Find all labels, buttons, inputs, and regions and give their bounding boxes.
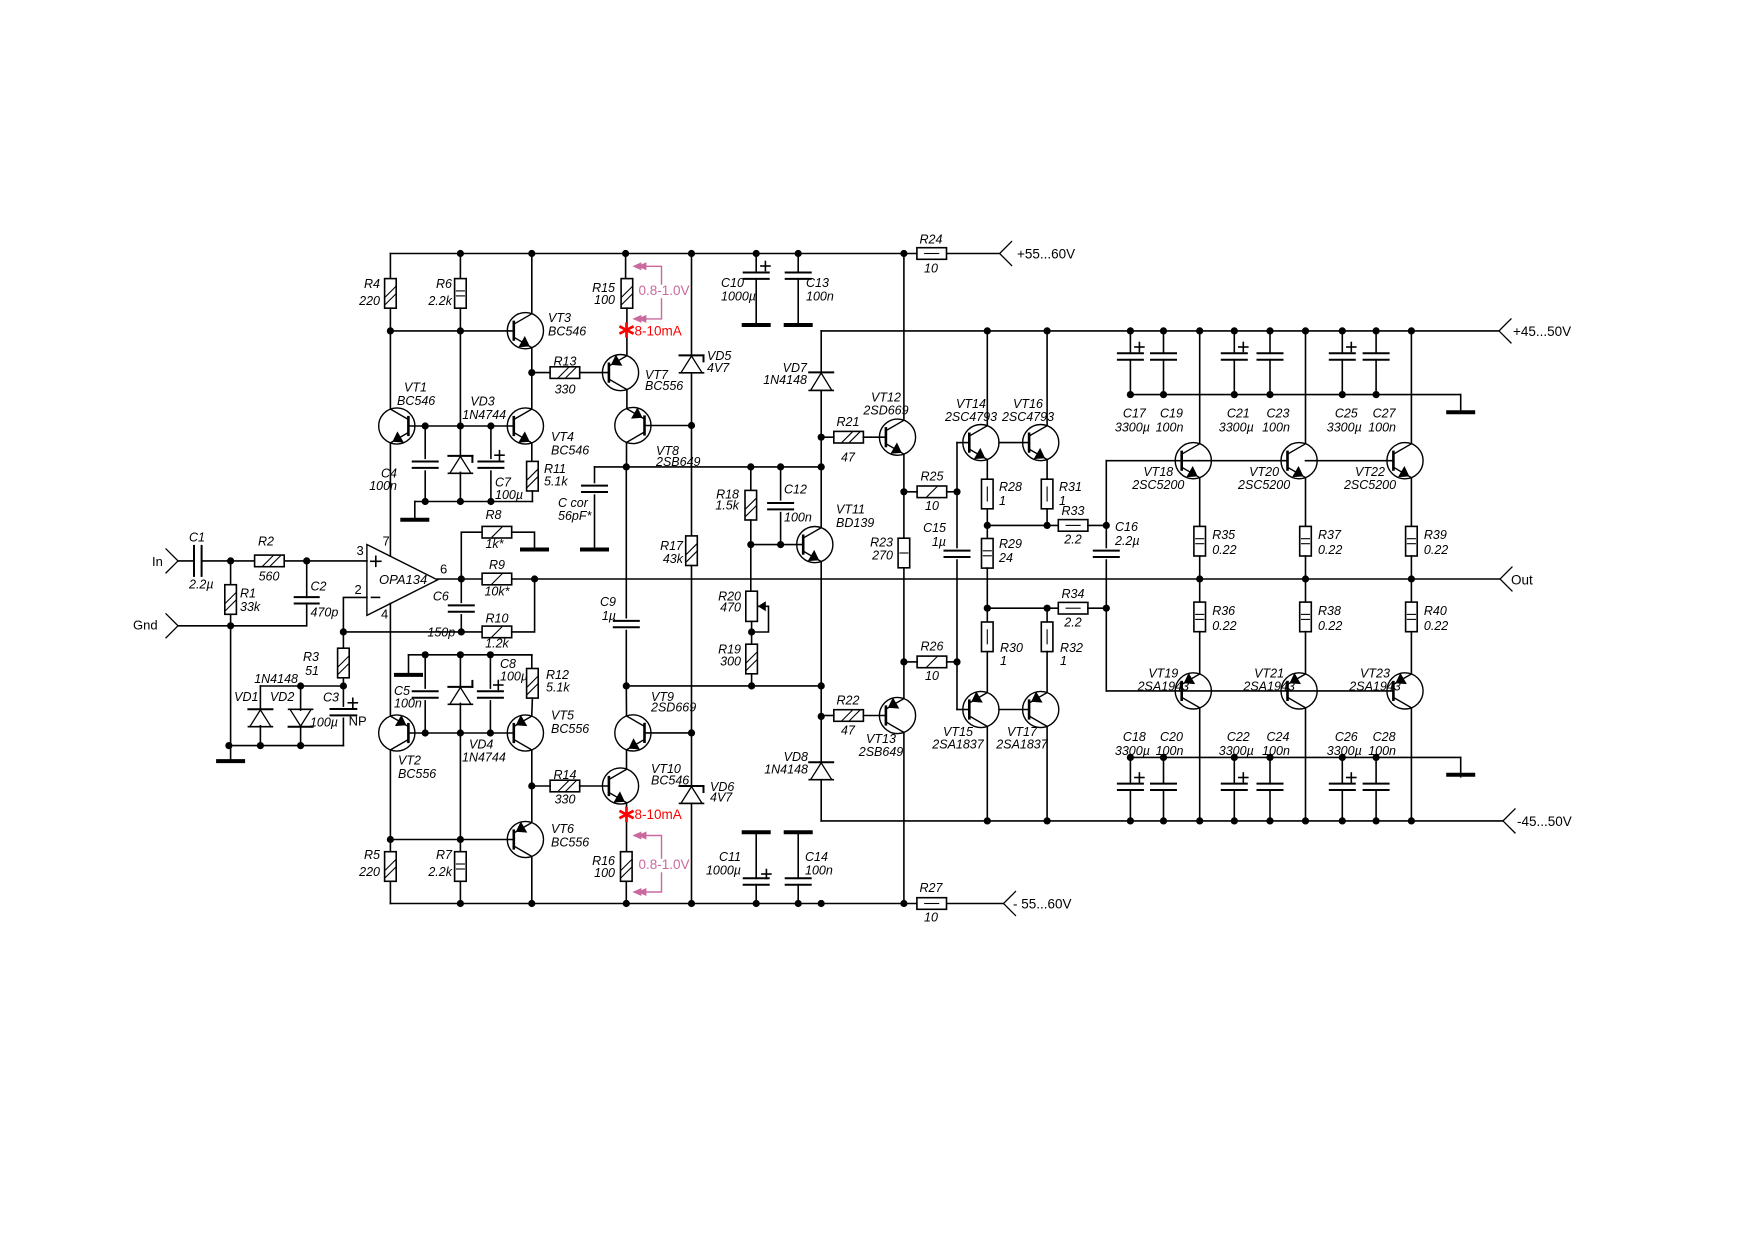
svg-text:1: 1	[1000, 654, 1007, 668]
svg-text:BC546: BC546	[548, 325, 586, 339]
svg-text:24: 24	[998, 551, 1013, 565]
svg-text:VD4: VD4	[469, 738, 493, 752]
svg-text:R1: R1	[240, 587, 256, 601]
svg-text:0.8-1.0V: 0.8-1.0V	[639, 283, 690, 298]
svg-text:R2: R2	[258, 535, 274, 549]
svg-text:330: 330	[555, 793, 576, 807]
svg-text:2.2: 2.2	[1063, 616, 1081, 630]
svg-text:R28: R28	[999, 480, 1022, 494]
svg-text:In: In	[152, 554, 163, 569]
svg-text:470: 470	[720, 601, 741, 615]
svg-text:270: 270	[871, 549, 893, 563]
svg-text:BC546: BC546	[397, 394, 435, 408]
svg-text:2SC5200: 2SC5200	[1237, 478, 1290, 492]
svg-text:R23: R23	[870, 536, 893, 550]
svg-text:BC556: BC556	[645, 379, 683, 393]
svg-text:4V7: 4V7	[707, 361, 730, 375]
svg-text:VT21: VT21	[1254, 667, 1284, 681]
svg-text:3300µ: 3300µ	[1327, 421, 1362, 435]
svg-text:8-10mA: 8-10mA	[635, 807, 682, 822]
svg-text:100n: 100n	[806, 290, 834, 304]
svg-text:1N4148: 1N4148	[764, 763, 808, 777]
svg-text:330: 330	[555, 383, 576, 397]
svg-text:2SB649: 2SB649	[858, 745, 904, 759]
svg-text:R25: R25	[921, 470, 944, 484]
svg-text:33k: 33k	[240, 600, 261, 614]
svg-text:4: 4	[381, 607, 388, 622]
svg-text:2SA1837: 2SA1837	[995, 738, 1048, 752]
svg-text:R26: R26	[921, 640, 944, 654]
svg-text:2.2: 2.2	[1063, 533, 1081, 547]
svg-text:Gnd: Gnd	[133, 618, 158, 633]
svg-text:100n: 100n	[369, 479, 397, 493]
svg-text:C13: C13	[806, 276, 829, 290]
svg-text:8-10mA: 8-10mA	[635, 324, 682, 339]
svg-text:0.22: 0.22	[1212, 619, 1236, 633]
svg-text:1µ: 1µ	[602, 609, 616, 623]
svg-text:56pF*: 56pF*	[558, 509, 592, 523]
svg-text:VT1: VT1	[404, 381, 427, 395]
svg-text:VD3: VD3	[470, 394, 494, 408]
svg-text:VT12: VT12	[871, 391, 901, 405]
svg-text:C2: C2	[311, 580, 327, 594]
svg-text:R30: R30	[1000, 641, 1023, 655]
svg-text:-45...50V: -45...50V	[1517, 814, 1572, 829]
svg-text:C25: C25	[1335, 407, 1358, 421]
svg-text:R22: R22	[837, 694, 860, 708]
svg-text:2SC5200: 2SC5200	[1343, 478, 1396, 492]
svg-text:NP: NP	[349, 714, 367, 729]
svg-text:2SD669: 2SD669	[862, 404, 908, 418]
svg-text:C1: C1	[189, 531, 205, 545]
svg-text:BC546: BC546	[551, 444, 589, 458]
svg-text:100n: 100n	[1156, 421, 1184, 435]
svg-text:47: 47	[841, 451, 856, 465]
svg-text:R24: R24	[920, 233, 943, 247]
svg-text:OPA134: OPA134	[379, 572, 427, 587]
svg-text:1: 1	[999, 494, 1006, 508]
svg-text:2SC4793: 2SC4793	[944, 410, 997, 424]
svg-text:BC556: BC556	[398, 767, 436, 781]
svg-text:43k: 43k	[663, 552, 684, 566]
svg-text:7: 7	[383, 534, 390, 549]
svg-text:R17: R17	[660, 539, 684, 553]
svg-text:VT6: VT6	[551, 822, 574, 836]
svg-text:150p: 150p	[427, 626, 455, 640]
svg-text:5.1k: 5.1k	[546, 681, 570, 695]
svg-text:C15: C15	[923, 521, 946, 535]
svg-text:C20: C20	[1160, 730, 1183, 744]
svg-text:C26: C26	[1335, 730, 1358, 744]
svg-text:2.2k: 2.2k	[427, 865, 452, 879]
svg-text:VD2: VD2	[270, 690, 294, 704]
svg-text:100n: 100n	[394, 697, 422, 711]
svg-text:100µ: 100µ	[310, 716, 338, 730]
svg-text:C21: C21	[1227, 407, 1250, 421]
svg-text:C6: C6	[433, 590, 449, 604]
svg-text:C22: C22	[1227, 730, 1250, 744]
svg-text:1.2k: 1.2k	[485, 637, 509, 651]
svg-text:1k*: 1k*	[485, 537, 504, 551]
svg-text:VT16: VT16	[1013, 397, 1043, 411]
svg-text:1µ: 1µ	[932, 535, 946, 549]
svg-text:VT5: VT5	[551, 709, 574, 723]
svg-text:0.22: 0.22	[1318, 543, 1342, 557]
svg-text:0.8-1.0V: 0.8-1.0V	[639, 857, 690, 872]
svg-text:10: 10	[924, 911, 938, 925]
svg-text:+45...50V: +45...50V	[1513, 324, 1571, 339]
svg-text:R7: R7	[436, 848, 453, 862]
svg-text:1000µ: 1000µ	[721, 290, 756, 304]
svg-text:4V7: 4V7	[710, 791, 733, 805]
svg-text:R27: R27	[920, 881, 944, 895]
svg-text:220: 220	[358, 865, 380, 879]
svg-text:VT19: VT19	[1148, 667, 1178, 681]
svg-text:C19: C19	[1160, 407, 1183, 421]
svg-text:VT20: VT20	[1249, 465, 1279, 479]
svg-text:10: 10	[924, 262, 938, 276]
svg-text:R39: R39	[1424, 528, 1447, 542]
svg-text:C16: C16	[1115, 520, 1138, 534]
svg-text:5.1k: 5.1k	[544, 475, 568, 489]
svg-text:R32: R32	[1060, 641, 1083, 655]
svg-text:VT13: VT13	[866, 732, 896, 746]
svg-text:1000µ: 1000µ	[706, 864, 741, 878]
svg-text:2.2µ: 2.2µ	[188, 578, 214, 592]
svg-text:R37: R37	[1318, 528, 1342, 542]
svg-text:R6: R6	[436, 277, 452, 291]
svg-text:47: 47	[841, 724, 856, 738]
svg-text:100n: 100n	[784, 511, 812, 525]
svg-text:100n: 100n	[805, 864, 833, 878]
svg-text:VT4: VT4	[551, 430, 574, 444]
svg-text:2.2k: 2.2k	[427, 294, 452, 308]
svg-text:560: 560	[259, 570, 280, 584]
svg-text:C9: C9	[600, 595, 616, 609]
svg-text:R3: R3	[303, 650, 319, 664]
svg-text:VT23: VT23	[1360, 667, 1390, 681]
svg-text:2SC5200: 2SC5200	[1131, 478, 1184, 492]
svg-text:C12: C12	[784, 483, 807, 497]
svg-text:+55...60V: +55...60V	[1017, 246, 1075, 261]
svg-text:R8: R8	[486, 508, 502, 522]
svg-text:BC556: BC556	[551, 836, 589, 850]
svg-text:R9: R9	[489, 558, 505, 572]
svg-text:2SA1837: 2SA1837	[931, 738, 984, 752]
svg-text:R10: R10	[486, 612, 509, 626]
svg-text:VD1: VD1	[234, 690, 258, 704]
svg-text:0.22: 0.22	[1318, 619, 1342, 633]
svg-text:VT18: VT18	[1143, 465, 1173, 479]
svg-text:300: 300	[720, 655, 741, 669]
svg-text:R33: R33	[1062, 504, 1085, 518]
svg-text:0.22: 0.22	[1424, 619, 1448, 633]
svg-text:Out: Out	[1511, 572, 1533, 587]
svg-text:100µ: 100µ	[500, 670, 528, 684]
svg-text:6: 6	[440, 562, 447, 577]
svg-text:100µ: 100µ	[495, 488, 523, 502]
svg-text:C24: C24	[1267, 730, 1290, 744]
svg-text:VT22: VT22	[1355, 465, 1385, 479]
svg-text:100n: 100n	[1368, 421, 1396, 435]
svg-text:0.22: 0.22	[1424, 543, 1448, 557]
svg-text:1N4744: 1N4744	[462, 751, 506, 765]
svg-text:R14: R14	[554, 768, 577, 782]
svg-text:100n: 100n	[1262, 744, 1290, 758]
svg-text:51: 51	[305, 664, 319, 678]
svg-text:C cor: C cor	[558, 496, 589, 510]
svg-text:10: 10	[925, 499, 939, 513]
svg-text:2.2µ: 2.2µ	[1114, 534, 1140, 548]
svg-text:R35: R35	[1212, 528, 1235, 542]
svg-text:2SD669: 2SD669	[650, 701, 696, 715]
svg-text:470p: 470p	[311, 606, 339, 620]
svg-text:R5: R5	[364, 848, 380, 862]
svg-text:10: 10	[925, 669, 939, 683]
svg-text:R38: R38	[1318, 604, 1341, 618]
svg-text:1N4148: 1N4148	[763, 373, 807, 387]
svg-text:220: 220	[358, 294, 380, 308]
svg-text:C18: C18	[1123, 730, 1146, 744]
svg-text:C10: C10	[721, 276, 744, 290]
svg-text:C14: C14	[805, 850, 828, 864]
svg-text:100n: 100n	[1368, 744, 1396, 758]
svg-text:C28: C28	[1373, 730, 1396, 744]
svg-text:1: 1	[1060, 654, 1067, 668]
svg-text:1N4148: 1N4148	[254, 672, 298, 686]
svg-text:VT3: VT3	[548, 311, 571, 325]
svg-text:VT2: VT2	[398, 754, 421, 768]
svg-text:VT14: VT14	[956, 397, 986, 411]
svg-text:C27: C27	[1373, 407, 1397, 421]
svg-text:R4: R4	[364, 277, 380, 291]
svg-text:R34: R34	[1062, 587, 1085, 601]
svg-text:0.22: 0.22	[1212, 543, 1236, 557]
svg-text:R29: R29	[999, 537, 1022, 551]
svg-text:100n: 100n	[1156, 744, 1184, 758]
svg-text:C23: C23	[1267, 407, 1290, 421]
svg-text:C3: C3	[323, 691, 339, 705]
svg-text:C17: C17	[1123, 407, 1147, 421]
svg-text:3300µ: 3300µ	[1115, 421, 1150, 435]
svg-text:3300µ: 3300µ	[1219, 421, 1254, 435]
svg-text:100n: 100n	[1262, 421, 1290, 435]
svg-text:R31: R31	[1059, 480, 1082, 494]
svg-text:10k*: 10k*	[484, 585, 510, 599]
svg-text:R13: R13	[554, 355, 577, 369]
svg-text:VT11: VT11	[836, 503, 865, 517]
svg-text:- 55...60V: - 55...60V	[1013, 896, 1072, 911]
svg-text:BC556: BC556	[551, 722, 589, 736]
svg-text:R40: R40	[1424, 604, 1447, 618]
svg-text:1N4744: 1N4744	[462, 408, 506, 422]
svg-text:3: 3	[357, 543, 364, 558]
svg-text:1.5k: 1.5k	[715, 499, 739, 513]
svg-text:R36: R36	[1212, 604, 1235, 618]
svg-text:C11: C11	[719, 850, 741, 864]
svg-text:100: 100	[594, 866, 615, 880]
svg-text:2SC4793: 2SC4793	[1001, 410, 1054, 424]
svg-text:2: 2	[355, 582, 362, 597]
svg-text:R21: R21	[837, 415, 860, 429]
svg-text:100: 100	[594, 293, 615, 307]
svg-text:BD139: BD139	[836, 516, 874, 530]
